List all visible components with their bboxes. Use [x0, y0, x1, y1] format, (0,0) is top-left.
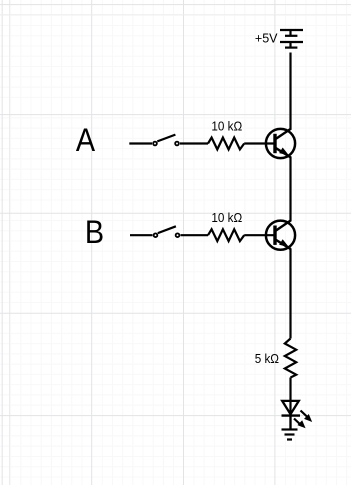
svg-text:10 kΩ: 10 kΩ	[211, 210, 242, 225]
svg-text:A: A	[76, 122, 96, 158]
svg-text:B: B	[85, 214, 104, 250]
svg-text:+5V: +5V	[255, 30, 278, 45]
svg-text:10 kΩ: 10 kΩ	[211, 119, 242, 134]
svg-text:5 kΩ: 5 kΩ	[255, 352, 279, 367]
